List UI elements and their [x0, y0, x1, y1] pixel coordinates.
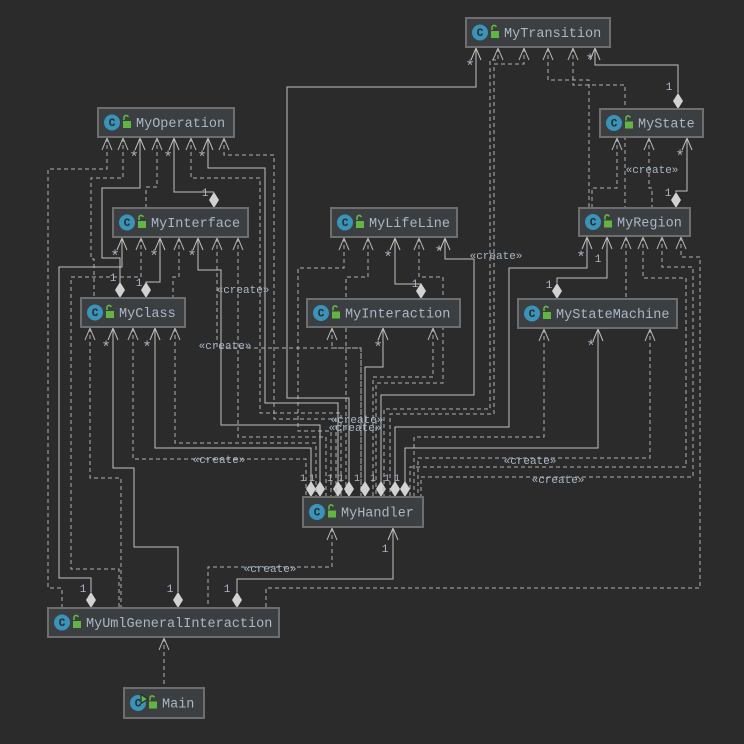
- svg-text:MyClass: MyClass: [119, 307, 176, 322]
- svg-text:1: 1: [224, 584, 231, 596]
- svg-text:1: 1: [595, 254, 602, 266]
- wire dep MyRegion->MyState: [592, 138, 617, 208]
- wire agg MyState<>-MyTransition: [595, 48, 678, 93]
- svg-text:1: 1: [412, 279, 419, 291]
- svg-text:*: *: [576, 249, 586, 267]
- svg-text:MyRegion: MyRegion: [617, 217, 682, 232]
- wire agg MyUmlGeneralInteraction<>-MyHandler: [237, 528, 393, 592]
- svg-text:1: 1: [300, 474, 306, 485]
- svg-text:1: 1: [666, 82, 673, 94]
- svg-text:MyInterface: MyInterface: [151, 217, 240, 232]
- svg-text:C: C: [318, 309, 325, 321]
- multiplicity and stereotype labels: [80, 52, 685, 596]
- class box Main: [124, 688, 204, 718]
- svg-text:C: C: [611, 119, 618, 131]
- class box MyInteraction: [307, 299, 460, 327]
- class box MyUmlGeneralInteraction: [48, 608, 279, 637]
- svg-text:C: C: [477, 28, 484, 40]
- svg-text:«create»: «create»: [193, 455, 246, 467]
- wire agg MyHandler<>-MyLifeLine: [381, 238, 474, 482]
- svg-text:1: 1: [327, 474, 333, 485]
- wire dep MyUmlGeneralInteraction->MyRegion: [266, 237, 700, 608]
- svg-text:*: *: [586, 338, 596, 356]
- svg-text:1: 1: [110, 273, 117, 285]
- svg-text:MyStateMachine: MyStateMachine: [556, 308, 669, 323]
- class box MyClass: [81, 298, 185, 327]
- wire dep MyClass->MyInterface b: [173, 238, 179, 298]
- svg-text:C: C: [529, 309, 536, 321]
- svg-text:MyHandler: MyHandler: [341, 507, 414, 522]
- wire agg MyUmlGeneralInteraction<>-MyClass: [113, 328, 178, 592]
- class box MyHandler: [303, 497, 423, 527]
- svg-text:1: 1: [394, 474, 400, 485]
- class box MyStateMachine: [518, 299, 677, 328]
- class box MyInterface: [113, 208, 248, 237]
- svg-text:C: C: [124, 218, 131, 230]
- class box MyLifeLine: [331, 208, 457, 237]
- svg-text:MyInteraction: MyInteraction: [345, 308, 450, 323]
- wire agg MyStateMachine<>-MyRegion: [557, 237, 607, 283]
- wire dep MyClass->MyOperation: [91, 138, 123, 298]
- svg-text:*: *: [187, 248, 197, 266]
- svg-text:*: *: [142, 339, 152, 357]
- wire dep MyHandler->MyOperation b: [224, 138, 336, 497]
- class box MyOperation: [98, 108, 234, 137]
- svg-text:*: *: [585, 52, 595, 70]
- wire dep MyHandler->MyStateMachine create: [418, 329, 650, 497]
- svg-text:«create»: «create»: [532, 475, 585, 487]
- svg-text:*: *: [163, 149, 173, 167]
- svg-text:*: *: [675, 148, 685, 166]
- wire agg MyHandler<>-MyClass: [155, 328, 311, 482]
- wire dep MyUmlGeneralInteraction->MyInterface: [71, 238, 141, 608]
- svg-text:1: 1: [80, 584, 87, 596]
- svg-text:C: C: [92, 308, 99, 320]
- class box MyRegion: [579, 208, 690, 236]
- wire dep MyUmlGeneralInteraction->MyClass: [90, 328, 121, 608]
- svg-text:Main: Main: [162, 698, 194, 713]
- svg-text:*: *: [149, 248, 159, 266]
- wire dep MyHandler->MyStateMachine: [414, 329, 544, 497]
- svg-text:1: 1: [354, 474, 360, 485]
- wire dep MyUmlGeneralInteraction->MyHandler create: [208, 528, 332, 608]
- svg-text:C: C: [109, 118, 116, 130]
- svg-text:«create»: «create»: [217, 285, 270, 297]
- svg-text:1: 1: [370, 474, 376, 485]
- svg-text:C: C: [314, 508, 321, 520]
- wire dep MyHandler->MyRegion: [410, 237, 686, 497]
- svg-text:1: 1: [546, 280, 553, 292]
- wire dep MyHandler->MyLifeLine a: [298, 238, 344, 497]
- wire dep MyRegion->MyTransition a: [548, 48, 589, 208]
- wire dep MyHandler->MyClass create: [133, 328, 306, 497]
- svg-text:1: 1: [338, 474, 344, 485]
- wire dep MyUmlGeneralInteraction->MyOperation: [48, 138, 107, 608]
- svg-text:«create»: «create»: [244, 564, 297, 576]
- wire agg MyHandler<>-MyRegion: [395, 237, 587, 482]
- wire dep MyHandler->MyOperation a: [191, 138, 341, 497]
- wire dep MyHandler->MyLifeLine b: [346, 238, 368, 497]
- svg-text:*: *: [434, 244, 444, 262]
- wire dep Main->MyUmlGeneralInteraction: [163, 638, 165, 688]
- svg-text:«create»: «create»: [329, 423, 382, 435]
- class box MyTransition: [466, 18, 610, 47]
- svg-text:*: *: [373, 339, 383, 357]
- svg-text:1: 1: [384, 474, 390, 485]
- svg-text:*: *: [110, 248, 120, 266]
- svg-text:*: *: [197, 149, 207, 167]
- svg-text:MyTransition: MyTransition: [504, 27, 601, 42]
- wire dep MyInterface->MyOperation: [146, 138, 157, 208]
- svg-text:*: *: [383, 249, 393, 267]
- svg-text:1: 1: [382, 544, 389, 556]
- class box MyState: [600, 109, 703, 137]
- wire agg MyHandler<>-MyInterface: [198, 238, 320, 482]
- wire agg MyClass<>-MyOperation: [102, 138, 140, 283]
- svg-text:«create»: «create»: [626, 165, 679, 177]
- svg-text:C: C: [342, 218, 349, 230]
- wire agg MyHandler<>-MyOperation: [208, 138, 338, 482]
- svg-text:«create»: «create»: [470, 251, 523, 263]
- wire dep MyHandler->MyInteraction b: [373, 328, 433, 497]
- wire dep MyHandler->MyInterface create a: [217, 238, 361, 497]
- svg-text:C: C: [590, 218, 597, 230]
- wire dep MyHandler->MyRegion create: [421, 237, 693, 497]
- svg-text:MyLifeLine: MyLifeLine: [369, 217, 450, 232]
- svg-text:MyOperation: MyOperation: [136, 117, 225, 132]
- svg-text:1: 1: [202, 188, 209, 200]
- wire agg MyRegion<>-MyState: [676, 138, 687, 192]
- wire dep MyStateMachine->MyRegion: [625, 237, 627, 299]
- svg-text:*: *: [465, 58, 475, 76]
- svg-text:1: 1: [309, 474, 315, 485]
- wire dep MyHandler->MyTransition create a: [384, 48, 498, 497]
- svg-text:1: 1: [167, 584, 174, 596]
- svg-text:«create»: «create»: [504, 456, 557, 468]
- wire dep MyHandler->MyInterface create b: [238, 238, 326, 497]
- wire agg MyHandler<>-MyTransition: [287, 48, 476, 482]
- wire agg MyHandler<>-MyStateMachine: [405, 329, 598, 482]
- wire agg MyInterface<>-MyOperation: [174, 138, 214, 192]
- wire dep MyHandler->MyClass: [175, 328, 316, 497]
- svg-text:MyUmlGeneralInteraction: MyUmlGeneralInteraction: [86, 617, 272, 632]
- wire agg MyHandler<>-MyInteraction: [365, 328, 383, 482]
- svg-text:1: 1: [136, 278, 143, 290]
- wire dep MyRegion->MyTransition b: [573, 48, 625, 208]
- wire dep MyHandler->MyTransition create b: [390, 48, 524, 497]
- svg-text:«create»: «create»: [199, 341, 252, 353]
- svg-text:1: 1: [665, 188, 672, 200]
- wire agg MyUmlGeneralInteraction<>-MyInterface: [59, 238, 122, 592]
- svg-text:*: *: [129, 149, 139, 167]
- svg-text:C: C: [59, 618, 66, 630]
- wire agg MyClass<>-MyInterface: [146, 238, 160, 283]
- wire agg MyInteraction<>-MyLifeLine: [395, 238, 421, 284]
- wire dep MyHandler->MyLifeLine c: [376, 238, 443, 497]
- svg-text:*: *: [101, 339, 111, 357]
- svg-text:MyState: MyState: [638, 118, 695, 133]
- wire dep MyRegion->MyState create: [649, 138, 652, 208]
- wire dep MyHandler->MyInteraction a: [332, 328, 361, 497]
